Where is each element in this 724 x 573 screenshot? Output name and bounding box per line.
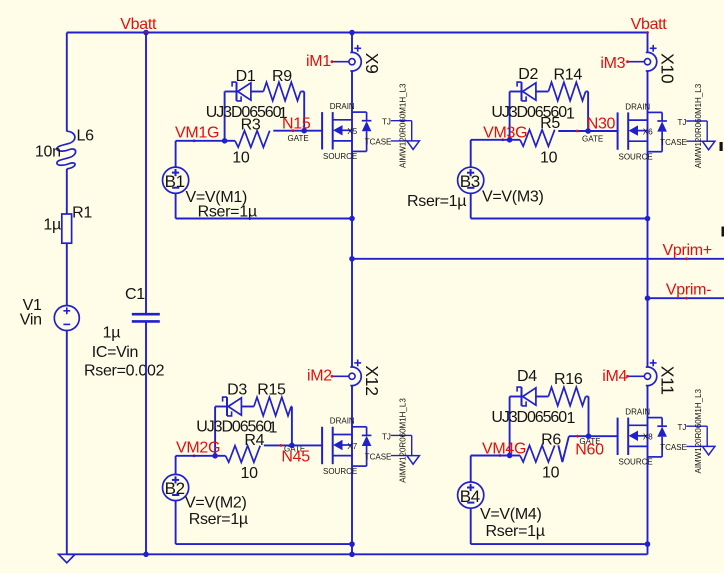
svg-text:SOURCE: SOURCE	[619, 152, 653, 161]
svg-text:GATE: GATE	[582, 134, 603, 143]
wire Vbatt to C1	[145, 33, 147, 315]
behavioral source B3	[458, 167, 484, 193]
transistor X8 (MOSFET subckt)	[617, 418, 619, 455]
svg-text:SOURCE: SOURCE	[323, 467, 357, 476]
svg-text:B1: B1	[165, 172, 185, 191]
svg-text:R15: R15	[257, 382, 286, 399]
svg-text:TJ: TJ	[678, 118, 687, 127]
wire B3 minus to leg	[470, 193, 472, 218]
wire R5 to gate	[558, 130, 617, 132]
wire Vprim+	[352, 258, 724, 260]
resistor R14	[548, 82, 585, 101]
wire R6 to gate	[569, 435, 618, 437]
svg-text:Vbatt: Vbatt	[120, 16, 157, 33]
wire ground bottom rail	[67, 553, 648, 555]
resistor R16	[548, 387, 585, 406]
transistor X5 (MOSFET subckt)	[321, 112, 323, 149]
wire D2 branch left vertical	[509, 92, 511, 140]
wire R14 to drop	[586, 91, 589, 93]
node B1 ref junction	[349, 216, 355, 222]
current probe X10	[646, 52, 657, 71]
wire diode to R15	[241, 406, 254, 408]
wire to diode D1	[225, 91, 237, 93]
svg-text:Vprim-: Vprim-	[666, 282, 711, 299]
svg-text:Vbatt: Vbatt	[631, 16, 668, 33]
wire diode to R14	[536, 91, 549, 93]
resistor R5	[520, 130, 555, 147]
svg-text:N45: N45	[281, 449, 310, 466]
node ground junction C1	[143, 552, 149, 558]
svg-text:X7: X7	[347, 442, 357, 451]
partial text at right edge	[720, 142, 723, 151]
diode D2 (UJ3D06560)	[517, 82, 521, 87]
wire diode to R16	[536, 396, 549, 398]
svg-text:TJ: TJ	[678, 423, 687, 432]
wire R9 to drop	[301, 91, 305, 93]
svg-text:X8: X8	[643, 433, 653, 442]
svg-text:iM1: iM1	[306, 53, 331, 70]
wire C1 to ground rail	[145, 321, 147, 554]
svg-text:Rser=0.002: Rser=0.002	[84, 363, 165, 380]
svg-text:iM4: iM4	[602, 368, 627, 385]
wire L6 to R1	[66, 169, 68, 214]
svg-text:R1: R1	[72, 205, 92, 222]
svg-text:V=V(M3): V=V(M3)	[482, 188, 543, 205]
svg-text:AIMW120R060M1H_L3: AIMW120R060M1H_L3	[694, 83, 703, 168]
svg-text:TCASE: TCASE	[365, 452, 392, 461]
svg-text:DRAIN: DRAIN	[330, 102, 355, 111]
svg-text:N30: N30	[587, 116, 616, 133]
resistor R15	[254, 397, 291, 416]
svg-text:B3: B3	[460, 172, 480, 191]
wire to diode D2	[510, 91, 522, 93]
svg-text:AIMW120R060M1H_L3: AIMW120R060M1H_L3	[399, 398, 408, 483]
diode D1 (UJ3D06560)	[232, 82, 236, 87]
node Vbatt junction left leg	[349, 30, 355, 36]
svg-text:X12: X12	[362, 365, 382, 395]
svg-text:N15: N15	[282, 116, 311, 133]
wire right bridge leg	[647, 33, 649, 53]
wire to diode D4	[510, 396, 522, 398]
svg-text:X5: X5	[347, 127, 357, 136]
wire VM4G to B4	[470, 456, 472, 483]
transistor X7 (MOSFET subckt)	[321, 427, 323, 464]
svg-text:N60: N60	[575, 442, 604, 459]
wire V1 to ground rail	[66, 331, 68, 555]
svg-text:1: 1	[567, 410, 576, 427]
wire Vprim-	[648, 297, 724, 299]
wire drop R15	[291, 407, 293, 446]
svg-text:GATE: GATE	[288, 134, 309, 143]
svg-text:B4: B4	[460, 487, 480, 506]
wire drop R16	[588, 397, 590, 437]
node ground junction left leg	[349, 552, 355, 558]
wire B4 minus to leg	[470, 508, 472, 544]
wire R15 to drop	[290, 406, 293, 408]
wire diode to R9	[251, 91, 264, 93]
svg-text:R6: R6	[541, 431, 561, 448]
wire VM1G to B1	[175, 141, 177, 167]
svg-text:R16: R16	[554, 371, 583, 388]
svg-text:SOURCE: SOURCE	[619, 458, 653, 467]
node gate network corner D4	[507, 453, 513, 459]
diode D3 (UJ3D06560)	[223, 397, 227, 402]
svg-text:iM2: iM2	[307, 368, 332, 385]
voltage source V1	[54, 306, 79, 331]
wire D4 branch left vertical	[509, 397, 511, 456]
ground symbol	[59, 554, 75, 563]
node B2 ref junction	[349, 541, 355, 547]
svg-text:R9: R9	[272, 68, 292, 85]
wire R1 to V1	[66, 243, 68, 305]
svg-text:D4: D4	[517, 368, 537, 385]
svg-text:1µ: 1µ	[103, 325, 121, 342]
diode D4 (UJ3D06560)	[517, 387, 521, 392]
svg-text:D2: D2	[518, 66, 538, 83]
svg-text:10: 10	[542, 465, 560, 482]
svg-text:VM1G: VM1G	[175, 125, 219, 142]
node B3 ref junction	[645, 216, 651, 222]
svg-text:DRAIN: DRAIN	[625, 408, 650, 417]
svg-text:Rser=1µ: Rser=1µ	[486, 523, 545, 540]
wire Vbatt to L6	[66, 33, 68, 132]
svg-text:B2: B2	[165, 479, 185, 498]
behavioral source B2	[163, 474, 189, 500]
capacitor C1	[132, 313, 160, 316]
resistor R3	[235, 131, 270, 148]
svg-text:D3: D3	[227, 382, 247, 399]
node Vprim- junction	[645, 295, 651, 301]
wire R3 to gate	[273, 130, 322, 132]
svg-text:X11: X11	[658, 366, 678, 395]
wire R6 jog	[558, 436, 569, 462]
wire left bridge leg	[351, 33, 353, 53]
wire Vbatt top rail	[67, 32, 648, 34]
svg-text:SOURCE: SOURCE	[323, 152, 357, 161]
svg-text:1: 1	[566, 106, 575, 123]
wire VM3G to B3	[470, 140, 472, 167]
wire R5 lead	[510, 139, 520, 141]
svg-text:V=V(M2): V=V(M2)	[185, 495, 246, 512]
svg-text:X6: X6	[643, 128, 653, 137]
svg-text:DRAIN: DRAIN	[330, 417, 355, 426]
node gate network corner D3	[212, 453, 218, 459]
svg-text:C1: C1	[125, 286, 145, 303]
wire R6 lead	[510, 455, 520, 457]
node R16 drop junction	[586, 433, 592, 439]
inductor L6	[57, 131, 76, 169]
resistor R6	[520, 445, 555, 462]
resistor R9	[263, 82, 300, 101]
svg-text:TCASE: TCASE	[660, 138, 687, 147]
svg-text:TCASE: TCASE	[365, 138, 392, 147]
svg-text:iM3: iM3	[600, 55, 625, 72]
svg-text:Vin: Vin	[20, 312, 42, 329]
node R15 drop junction	[289, 443, 295, 449]
resistor R1	[62, 214, 72, 243]
svg-text:R14: R14	[554, 67, 583, 84]
svg-text:R5: R5	[540, 115, 560, 132]
svg-text:X10: X10	[658, 53, 678, 84]
svg-text:D1: D1	[236, 68, 256, 85]
node gate network corner D1	[222, 138, 228, 144]
wire B2 minus to leg	[175, 501, 177, 544]
node gate network corner D2	[507, 137, 513, 143]
current probe X12	[350, 367, 361, 386]
svg-text:R4: R4	[244, 432, 264, 449]
wire to diode D3	[215, 406, 227, 408]
svg-text:TJ: TJ	[382, 118, 391, 127]
svg-text:V=V(M4): V=V(M4)	[480, 506, 541, 523]
node Vbatt junction C1	[143, 30, 149, 36]
svg-text:UJ3D06560: UJ3D06560	[491, 409, 567, 426]
wire drop R14	[587, 92, 589, 132]
behavioral source B4	[458, 482, 484, 508]
svg-text:10: 10	[241, 465, 259, 482]
node B4 ref junction	[645, 541, 651, 547]
wire VM2G to B2	[175, 456, 177, 475]
svg-text:AIMW120R060M1H_L3: AIMW120R060M1H_L3	[694, 388, 703, 473]
svg-text:10: 10	[232, 150, 250, 167]
svg-text:10: 10	[540, 150, 558, 167]
current probe X9	[350, 52, 361, 71]
current probe X11	[646, 367, 657, 386]
node Vprim+ junction	[349, 256, 355, 262]
svg-text:Rser=1µ: Rser=1µ	[189, 511, 248, 528]
svg-text:IC=Vin: IC=Vin	[92, 344, 138, 361]
wire B1 minus to leg	[175, 193, 177, 218]
svg-text:Vprim+: Vprim+	[663, 242, 712, 259]
svg-text:TJ: TJ	[382, 432, 391, 441]
node R9 drop junction	[301, 128, 307, 134]
resistor R4	[226, 446, 261, 463]
wire D3 branch left vertical	[214, 407, 216, 456]
svg-text:VM2G: VM2G	[176, 440, 220, 457]
node R14 drop junction	[585, 128, 591, 134]
svg-text:1µ: 1µ	[43, 217, 61, 234]
transistor X6 (MOSFET subckt)	[617, 112, 619, 149]
wire R4 to gate	[264, 444, 322, 446]
behavioral source B1	[163, 167, 189, 193]
wire R4 lead	[215, 455, 225, 457]
wire R16 to drop	[586, 396, 589, 398]
svg-text:Rser=1µ: Rser=1µ	[407, 193, 466, 210]
svg-text:AIMW120R060M1H_L3: AIMW120R060M1H_L3	[399, 83, 408, 168]
wire D1 branch left vertical	[224, 92, 226, 141]
svg-text:X9: X9	[362, 53, 382, 74]
wire drop R9	[303, 92, 305, 131]
svg-text:L6: L6	[77, 128, 95, 145]
svg-text:10n: 10n	[35, 144, 61, 161]
wire R3 lead	[225, 140, 235, 142]
svg-text:TCASE: TCASE	[660, 443, 687, 452]
svg-text:R3: R3	[241, 117, 261, 134]
svg-text:DRAIN: DRAIN	[625, 102, 650, 111]
